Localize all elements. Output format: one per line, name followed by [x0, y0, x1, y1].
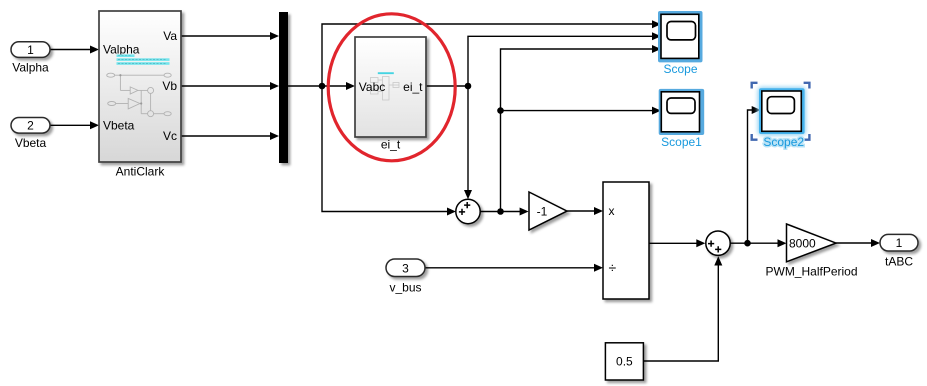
svg-text:-1: -1	[537, 205, 548, 219]
wire W10 up to Scope in2	[468, 32, 661, 86]
wire W13 up to Scope in3	[501, 45, 662, 212]
svg-text:1: 1	[896, 236, 903, 250]
wire W7 branch up to Scope in1	[322, 20, 661, 86]
wire W4 Vb to mux	[181, 82, 279, 90]
outport 1 tABC	[880, 234, 918, 268]
wire W14 to Scope1	[501, 107, 662, 115]
sum S1	[456, 199, 480, 223]
inport 1 Valpha	[11, 42, 50, 75]
wire W6 mux output to ei_t	[288, 82, 355, 90]
svg-text:Vb: Vb	[162, 79, 177, 93]
svg-text:ei_t: ei_t	[381, 138, 401, 152]
svg-text:v_bus: v_bus	[389, 281, 421, 295]
svg-text:÷: ÷	[609, 260, 617, 276]
svg-text:Scope: Scope	[663, 62, 697, 76]
svg-text:Vabc: Vabc	[359, 80, 385, 94]
mux	[279, 12, 288, 163]
subsystem ei_t	[355, 37, 426, 152]
svg-text:PWM_HalfPeriod: PWM_HalfPeriod	[765, 264, 857, 278]
cyan code highlight rows	[117, 54, 135, 57]
svg-text:ei_t: ei_t	[403, 80, 423, 94]
svg-text:Scope1: Scope1	[661, 135, 702, 149]
wire W21 const 0.5 to sum2 south	[643, 256, 722, 361]
wire W15 gain-1 to divide	[567, 207, 603, 215]
wire W1 port1 to AntiClark	[50, 46, 99, 54]
selection corner brackets	[752, 83, 810, 140]
svg-text:Scope2: Scope2	[763, 135, 804, 149]
scope Scope2 (selected)	[752, 83, 810, 149]
wire W18 sum2 out to gain8000	[730, 239, 786, 247]
svg-text:x: x	[609, 204, 615, 218]
wire W5 Vc to mux	[181, 132, 279, 140]
junction node sum1 out	[497, 208, 504, 215]
svg-text:1: 1	[27, 43, 34, 57]
junction node scope1 tap	[497, 107, 504, 114]
wire W8 branch down to sum1	[322, 86, 456, 216]
wire W20 gain8000 to outport	[836, 239, 880, 247]
junction node after mux	[319, 83, 326, 90]
subsystem AntiClark	[99, 11, 181, 179]
svg-text:Valpha: Valpha	[12, 61, 49, 75]
svg-text:Vc: Vc	[163, 129, 177, 143]
svg-text:Va: Va	[163, 29, 177, 43]
scope Scope	[658, 11, 703, 76]
wire W16 v_bus to divide	[425, 264, 603, 272]
svg-text:tABC: tABC	[885, 255, 913, 269]
gain PWM_HalfPeriod 8000	[765, 224, 857, 278]
wire W11 down to sum1 north	[464, 86, 472, 199]
inport 3 v_bus	[386, 259, 425, 295]
svg-text:3: 3	[402, 261, 409, 275]
wire W9 ei_t output	[426, 85, 468, 87]
sum S2	[706, 231, 730, 255]
junction node sum2 out	[744, 240, 751, 247]
inport 2 Vbeta	[11, 118, 50, 151]
wire W12 sum1 output to gain	[480, 208, 528, 216]
svg-text:AntiClark: AntiClark	[116, 165, 166, 179]
red annotation ellipse	[328, 14, 455, 161]
constant 0.5	[605, 343, 643, 380]
wire W17 divide to sum2	[649, 239, 705, 247]
scope Scope1	[659, 89, 705, 149]
gain G1 -1	[529, 192, 567, 230]
mini schematic preview	[107, 73, 172, 117]
svg-text:0.5: 0.5	[616, 355, 633, 369]
svg-text:Vbeta: Vbeta	[15, 136, 47, 150]
wire W3 Va to mux	[181, 32, 279, 40]
svg-text:2: 2	[27, 119, 34, 133]
divide block	[603, 182, 649, 299]
junction node after ei_t	[465, 83, 472, 90]
svg-text:Vbeta: Vbeta	[103, 119, 135, 133]
svg-text:8000: 8000	[789, 236, 816, 250]
wire W19 up to Scope2	[748, 106, 761, 243]
wire W2 port2 to AntiClark	[49, 121, 99, 129]
